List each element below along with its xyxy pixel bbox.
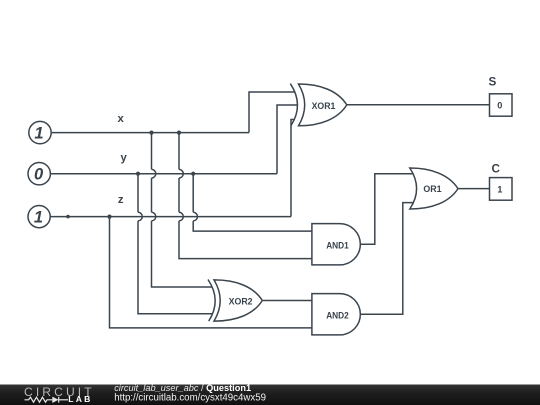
wire z input to XOR1 <box>50 120 294 217</box>
and gate AND2 body <box>312 294 360 335</box>
input source x value 1 <box>29 121 51 143</box>
svg-text:XOR2: XOR2 <box>229 296 253 307</box>
wire x branch to AND1 input 2 <box>179 133 312 259</box>
output box C <box>490 178 513 201</box>
svg-text:http://circuitlab.com/cysxt49c: http://circuitlab.com/cysxt49c4wx59 <box>114 393 266 404</box>
junction y/V4 <box>191 172 195 176</box>
svg-text:AND1: AND1 <box>326 241 349 252</box>
wire hop V2 over z <box>179 212 183 221</box>
wire XOR2 output to AND2 input 1 <box>263 300 312 302</box>
wire hop V4 over z <box>193 212 197 221</box>
svg-text:AND2: AND2 <box>326 311 349 322</box>
svg-text:C: C <box>491 163 500 176</box>
wire XOR1 output to S <box>347 104 490 106</box>
junction z node a <box>66 215 70 219</box>
svg-text:XOR1: XOR1 <box>312 101 336 112</box>
or gate OR1 body <box>410 168 458 209</box>
svg-text:1: 1 <box>497 184 502 195</box>
input source z value 1 <box>28 206 50 228</box>
wire y branch to XOR2 input 2 <box>138 174 213 314</box>
wire hop V3 over z <box>138 212 142 221</box>
svg-text:1: 1 <box>34 209 43 227</box>
wire hop V1 over y <box>152 169 156 178</box>
xor gate XOR1 input arc <box>290 84 297 126</box>
svg-text:y: y <box>121 152 128 164</box>
xor gate XOR1 body <box>299 84 347 126</box>
junction x/V1 <box>149 131 153 135</box>
wire OR1 output to C <box>458 188 490 190</box>
wire y input to XOR1 <box>50 105 297 174</box>
xor gate XOR2 body <box>214 280 262 321</box>
svg-text:1: 1 <box>34 125 43 143</box>
output box S <box>490 94 513 116</box>
CircuitLab logo diode triangle <box>52 397 58 403</box>
svg-text:S: S <box>489 76 497 89</box>
wire x branch to XOR2 input 1 <box>152 133 213 287</box>
svg-text:x: x <box>118 113 125 125</box>
CircuitLab logo resistor and diode glyph <box>25 397 69 403</box>
svg-text:z: z <box>118 194 124 206</box>
and gate AND1 body <box>312 224 360 265</box>
svg-text:0: 0 <box>34 166 44 184</box>
wire x input to XOR1 <box>51 92 295 133</box>
junction y/V3 <box>136 172 140 176</box>
svg-text:LAB: LAB <box>68 394 92 404</box>
svg-text:circuit_lab_user_abc / Questio: circuit_lab_user_abc / Question1 <box>114 383 251 393</box>
wire hop V2 over y <box>179 169 183 178</box>
wire AND1 output to OR1 input 1 <box>360 174 413 245</box>
svg-text:0: 0 <box>497 101 502 111</box>
wire hop V1 over z <box>152 212 156 221</box>
wire AND2 output to OR1 input 2 <box>360 203 413 315</box>
input source y value 0 <box>28 163 50 185</box>
xor gate XOR2 input arc <box>208 280 215 322</box>
wire z branch to AND2 input 2 <box>110 217 312 328</box>
svg-text:OR1: OR1 <box>423 184 442 195</box>
junction z/AND2 branch <box>107 215 111 219</box>
wire y branch to AND1 input 1 <box>193 174 312 231</box>
junction x/V2 <box>177 131 181 135</box>
